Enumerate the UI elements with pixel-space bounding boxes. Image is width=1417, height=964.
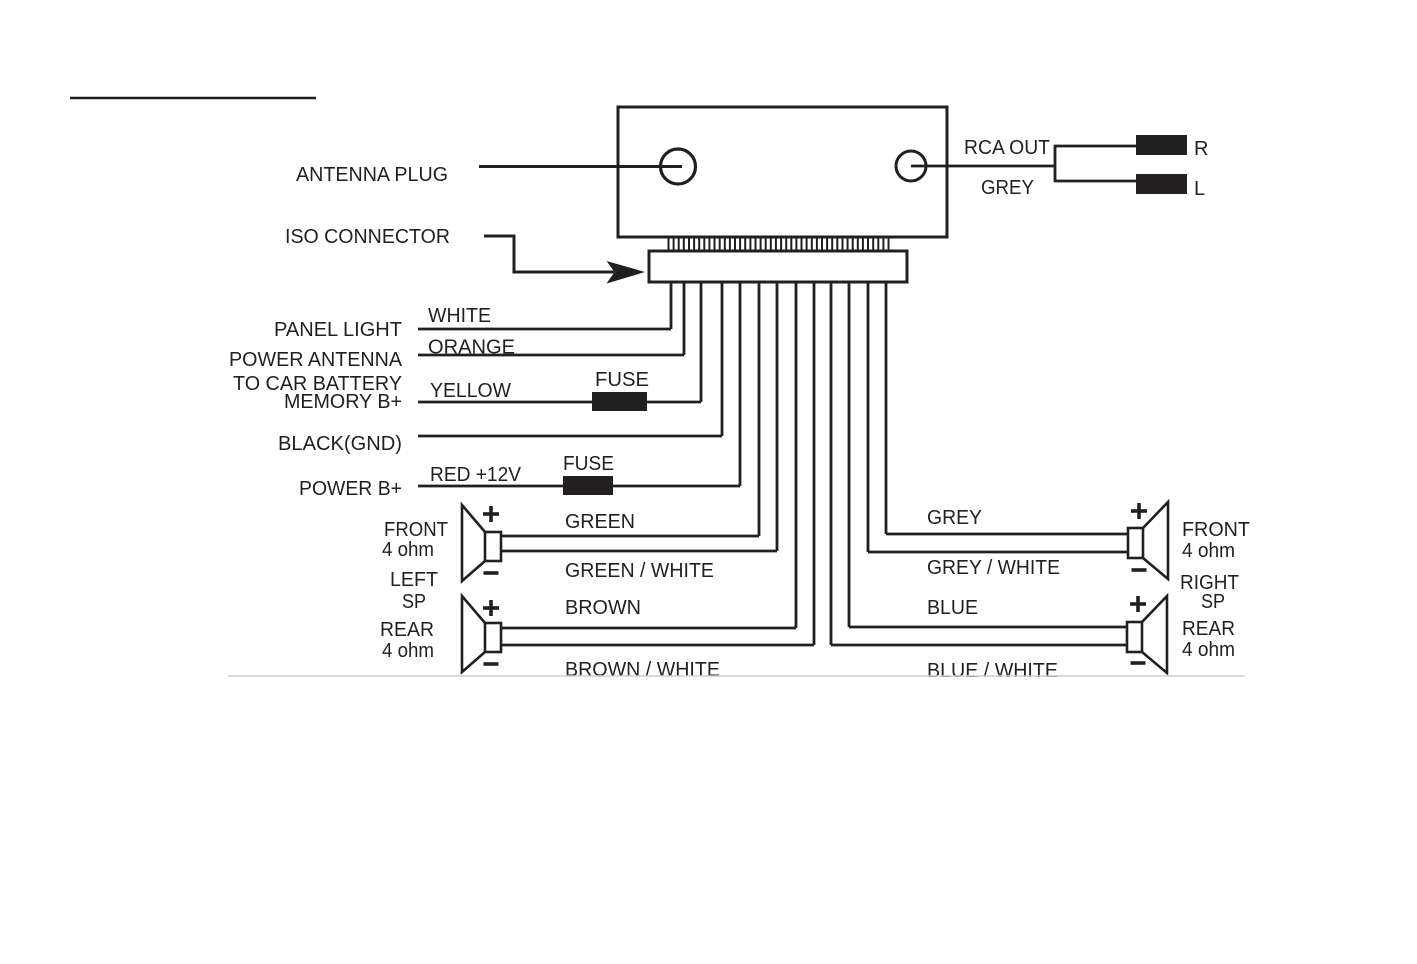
svg-text:BLACK(GND): BLACK(GND) xyxy=(278,433,402,455)
svg-text:FUSE: FUSE xyxy=(563,453,614,475)
wire drop ORANGE xyxy=(683,282,686,355)
fuse F2 on red wire xyxy=(563,476,613,495)
speaker rear-left magnet xyxy=(485,623,501,652)
svg-text:4 ohm: 4 ohm xyxy=(1182,639,1235,661)
speaker rear-left plus xyxy=(483,606,499,610)
speaker front-left cone xyxy=(462,505,485,581)
ISO pointer arrowhead xyxy=(607,261,646,284)
wire drop GREY/WHITE xyxy=(867,282,870,552)
svg-text:SP: SP xyxy=(402,591,426,613)
speaker rear-right plus xyxy=(1130,602,1146,606)
svg-text:GREY / WHITE: GREY / WHITE xyxy=(927,557,1060,579)
wire drop GREEN/WHITE xyxy=(776,282,779,551)
speaker front-left magnet xyxy=(485,532,501,561)
svg-text:PANEL LIGHT: PANEL LIGHT xyxy=(274,319,402,341)
antenna jack circle xyxy=(661,149,696,184)
speaker front-left minus xyxy=(484,571,499,575)
svg-text:GREEN: GREEN xyxy=(565,511,635,533)
svg-text:POWER ANTENNA: POWER ANTENNA xyxy=(229,349,403,371)
svg-text:REAR: REAR xyxy=(1182,618,1235,640)
speaker rear-left minus xyxy=(484,662,499,666)
faint page rule xyxy=(228,675,1245,677)
wire RCA out lead xyxy=(911,165,1055,168)
speaker front-right cone xyxy=(1143,502,1168,579)
svg-text:R: R xyxy=(1194,138,1208,160)
wire YELLOW horizontal xyxy=(418,401,701,404)
wire RCA splitter vertical xyxy=(1054,145,1057,182)
wire RCA branch L xyxy=(1054,180,1136,183)
speaker front-right minus xyxy=(1132,568,1147,572)
speaker front-right plus xyxy=(1131,509,1147,513)
svg-text:GREY: GREY xyxy=(981,177,1034,199)
svg-text:BLUE / WHITE: BLUE / WHITE xyxy=(927,660,1058,682)
RCA plug R xyxy=(1136,135,1187,155)
title underline xyxy=(70,97,316,99)
svg-text:RCA OUT: RCA OUT xyxy=(964,137,1050,159)
wire ISO pointer xyxy=(484,236,614,272)
wire BLUE horizontal xyxy=(849,626,1127,629)
wire drop BROWN xyxy=(795,282,798,628)
svg-text:ANTENNA PLUG: ANTENNA PLUG xyxy=(296,164,448,186)
svg-text:RED +12V: RED +12V xyxy=(430,464,522,486)
wire ORANGE horizontal xyxy=(418,354,684,357)
speaker rear-left cone xyxy=(462,596,485,672)
speaker rear-right magnet xyxy=(1127,622,1142,652)
wire drop WHITE xyxy=(670,282,673,329)
head unit box xyxy=(618,107,947,237)
svg-text:YELLOW: YELLOW xyxy=(430,380,511,402)
svg-text:L: L xyxy=(1194,178,1205,200)
svg-text:BROWN / WHITE: BROWN / WHITE xyxy=(565,659,720,681)
speaker rear-right cone xyxy=(1142,596,1167,673)
wire GREY horizontal xyxy=(886,533,1128,536)
svg-text:WHITE: WHITE xyxy=(428,305,491,327)
RCA jack circle xyxy=(896,151,926,181)
svg-text:FRONT: FRONT xyxy=(1182,519,1250,541)
svg-text:BROWN: BROWN xyxy=(565,597,641,619)
wire BLACK GND horizontal xyxy=(418,435,722,438)
wire GREEN horizontal xyxy=(501,535,759,538)
svg-text:LEFT: LEFT xyxy=(390,569,438,591)
svg-text:FUSE: FUSE xyxy=(595,369,649,391)
wire BROWN horizontal xyxy=(501,627,796,630)
wire GREEN/WHITE horizontal xyxy=(501,550,777,553)
svg-text:MEMORY B+: MEMORY B+ xyxy=(284,391,402,413)
svg-text:REAR: REAR xyxy=(380,619,434,641)
wire drop GREEN xyxy=(758,282,761,536)
speaker front-left plus xyxy=(483,512,499,516)
wire drop BROWN/WHITE xyxy=(813,282,816,645)
svg-text:SP: SP xyxy=(1201,591,1225,613)
wire BLUE/WHITE horizontal xyxy=(831,644,1127,647)
svg-text:4 ohm: 4 ohm xyxy=(382,640,434,662)
wire drop GREY xyxy=(885,282,888,534)
RCA plug L xyxy=(1136,174,1187,194)
wire RED horizontal xyxy=(418,485,740,488)
ISO connector block xyxy=(649,251,907,282)
svg-text:GREY: GREY xyxy=(927,507,982,529)
svg-text:FRONT: FRONT xyxy=(384,519,448,541)
wire RCA branch R xyxy=(1054,145,1136,148)
svg-text:BLUE: BLUE xyxy=(927,597,978,619)
fuse F1 on yellow wire xyxy=(592,392,647,411)
svg-text:4 ohm: 4 ohm xyxy=(382,539,434,561)
svg-text:ISO CONNECTOR: ISO CONNECTOR xyxy=(285,226,450,248)
wire drop BLUE xyxy=(848,282,851,627)
svg-text:GREEN / WHITE: GREEN / WHITE xyxy=(565,560,714,582)
connector pin comb xyxy=(669,239,889,252)
wire drop BLUE/WHITE xyxy=(830,282,833,645)
wire drop YELLOW xyxy=(700,282,703,402)
wire WHITE horizontal xyxy=(418,328,671,331)
speaker rear-right minus xyxy=(1131,661,1146,665)
wire drop RED xyxy=(739,282,742,486)
svg-text:POWER B+: POWER B+ xyxy=(299,478,402,500)
wire GREY/WHITE horizontal xyxy=(868,551,1128,554)
wire BROWN/WHITE horizontal xyxy=(501,644,814,647)
wire antenna lead xyxy=(479,165,682,168)
wire drop BLACK xyxy=(721,282,724,436)
svg-text:ORANGE: ORANGE xyxy=(428,337,515,359)
svg-text:4 ohm: 4 ohm xyxy=(1182,540,1235,562)
speaker front-right magnet xyxy=(1128,528,1143,558)
